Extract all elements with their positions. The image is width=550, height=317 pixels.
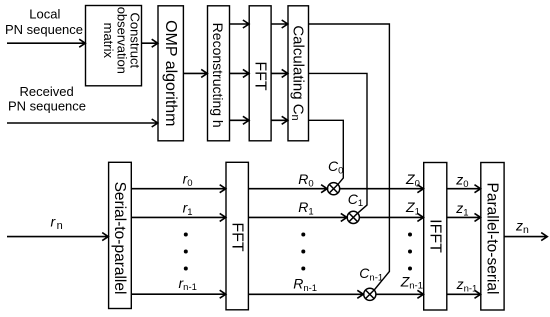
multiplier: C0 <box>328 183 340 195</box>
svg-text:FFT: FFT <box>228 222 245 252</box>
svg-text:Local: Local <box>29 6 60 21</box>
block: Calculating Cn <box>288 6 309 141</box>
wire: Reconstructing h to FFT (middle) <box>230 69 250 77</box>
svg-text:PN sequence: PN sequence <box>8 99 86 114</box>
block: Parallel-to-serial <box>481 163 504 311</box>
svg-text:Serial-to-parallel: Serial-to-parallel <box>111 182 128 295</box>
wire: Zn-1 from multiplier Cn-1 to IFFT <box>376 290 424 298</box>
wire: Calculating Cn output (middle level) down to multiplier C1 <box>309 73 368 212</box>
wire: FFT to Calculating Cn (middle) <box>271 69 288 77</box>
wire: Z1 from multiplier C1 to IFFT <box>359 213 423 221</box>
svg-text:Reconstructing h: Reconstructing h <box>210 23 226 128</box>
wire: R0 from FFT to multiplier C0 <box>248 185 327 193</box>
wire: Reconstructing h to FFT (bottom) <box>230 116 250 124</box>
label: Local PN sequence <box>5 6 83 37</box>
wire: OMP algorithm to Reconstructing h <box>183 69 207 77</box>
wire: Local PN sequence into Construct observation matrix <box>7 39 86 47</box>
svg-text:matrix: matrix <box>101 23 116 59</box>
multiplier: Cn-1 <box>364 288 376 300</box>
wire: FFT to Calculating Cn (top) <box>271 20 288 28</box>
wire: rn input into Serial-to-parallel <box>7 233 109 241</box>
block: FFT (upper) <box>249 6 271 141</box>
svg-text:Received: Received <box>19 84 73 99</box>
block: OMP algorithm <box>158 6 183 141</box>
dots: between FFT and multipliers <box>301 233 305 271</box>
block: Construct observation matrix <box>86 6 142 86</box>
label: Received PN sequence <box>8 84 86 114</box>
block: Reconstructing h <box>208 6 230 141</box>
svg-text:FFT: FFT <box>251 61 268 91</box>
wire: R1 from FFT to multiplier C1 <box>248 213 347 221</box>
wire: Construct matrix to OMP algorithm <box>142 39 159 47</box>
svg-text:IFFT: IFFT <box>427 219 444 253</box>
svg-text:Calculating Cn: Calculating Cn <box>289 25 307 120</box>
block: FFT (lower) <box>226 162 248 309</box>
svg-text:OMP algorithm: OMP algorithm <box>162 20 179 126</box>
wire: Calculating Cn output (bottom level) down to multiplier C0 <box>309 120 344 184</box>
dots: between multipliers and IFFT <box>408 233 412 271</box>
dots: between Serial-to-parallel and FFT <box>184 233 188 271</box>
svg-text:Parallel-to-serial: Parallel-to-serial <box>484 183 501 295</box>
wire: Z0 from multiplier C0 to IFFT <box>340 185 424 193</box>
wire: r1 from Serial-to-parallel to FFT <box>131 213 226 221</box>
wire: Rn-1 from FFT to multiplier Cn-1 <box>248 290 363 298</box>
wire: Reconstructing h to FFT (top) <box>230 20 250 28</box>
wire: FFT to Calculating Cn (bottom) <box>271 116 288 124</box>
wire: z1 from IFFT to Parallel-to-serial <box>447 213 481 221</box>
svg-text:PN sequence: PN sequence <box>5 22 83 37</box>
block: IFFT <box>424 163 447 311</box>
wire: zn output from Parallel-to-serial <box>504 233 547 241</box>
block: Serial-to-parallel <box>109 162 132 308</box>
wire: z0 from IFFT to Parallel-to-serial <box>447 185 481 193</box>
wire: Received PN sequence into OMP algorithm <box>7 119 158 127</box>
wire: r0 from Serial-to-parallel to FFT <box>131 185 226 193</box>
wire: zn-1 from IFFT to Parallel-to-serial <box>447 290 481 298</box>
multiplier: C1 <box>347 211 359 223</box>
wire: Calculating Cn output (top level) down to multiplier Cn-1 <box>309 24 390 290</box>
wire: rn-1 from Serial-to-parallel to FFT <box>131 290 226 298</box>
